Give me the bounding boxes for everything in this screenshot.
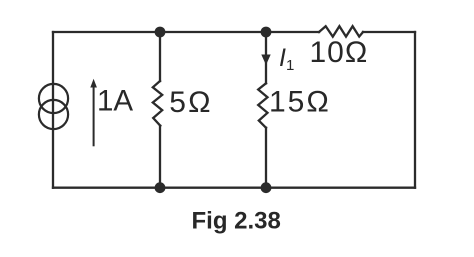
node C junction dot bottom-left bbox=[155, 182, 166, 193]
resistor R3 10ohm (horizontal zigzag) bbox=[319, 26, 363, 36]
svg-text:1A: 1A bbox=[97, 84, 133, 117]
resistor R1 5ohm (vertical zigzag) bbox=[153, 81, 162, 126]
wire branch 15ohm lower bbox=[265, 128, 267, 188]
wire left side bbox=[52, 32, 54, 188]
wire branch 15ohm upper bbox=[265, 32, 267, 83]
svg-text:15Ω: 15Ω bbox=[269, 86, 331, 119]
wire top-left segment bbox=[53, 31, 319, 33]
svg-text:5Ω: 5Ω bbox=[169, 86, 213, 119]
wire branch 5ohm lower bbox=[159, 126, 161, 188]
wire right side bbox=[414, 32, 416, 188]
wire top-right segment bbox=[363, 31, 415, 33]
node B junction dot top-right bbox=[261, 27, 272, 38]
svg-text:10Ω: 10Ω bbox=[310, 36, 369, 69]
current arrow I1 (down arrowhead on 15ohm branch) bbox=[261, 55, 270, 66]
svg-text:I1: I1 bbox=[279, 44, 294, 74]
wire branch 5ohm upper bbox=[159, 32, 161, 81]
resistor R2 15ohm (vertical zigzag) bbox=[258, 83, 267, 127]
arrow 1A (source current direction) bbox=[93, 85, 95, 146]
node D junction dot bottom-right bbox=[261, 182, 272, 193]
wire bottom bbox=[53, 187, 415, 189]
current source I 1A (two overlapping circles) bbox=[39, 84, 68, 113]
svg-text:Fig 2.38: Fig 2.38 bbox=[192, 207, 281, 234]
node A junction dot top-left bbox=[155, 27, 166, 38]
